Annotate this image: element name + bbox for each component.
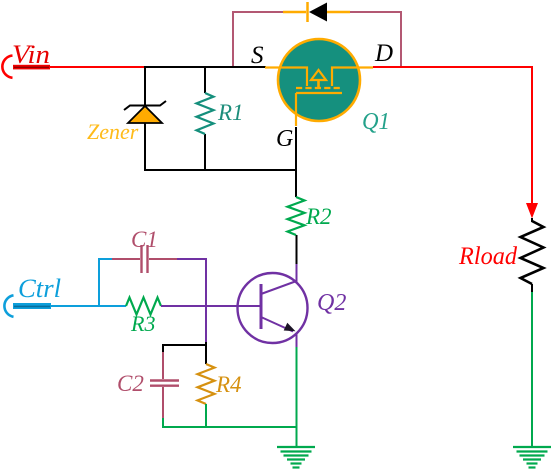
- svg-text:Q2: Q2: [317, 290, 346, 316]
- svg-text:C2: C2: [117, 371, 144, 396]
- svg-text:R4: R4: [215, 372, 242, 397]
- svg-text:D: D: [374, 40, 393, 67]
- svg-text:Vin: Vin: [12, 40, 50, 69]
- svg-text:S: S: [251, 42, 264, 69]
- svg-text:Ctrl: Ctrl: [18, 274, 61, 303]
- svg-text:Q1: Q1: [362, 109, 390, 135]
- svg-text:Zener: Zener: [87, 119, 139, 144]
- svg-text:R1: R1: [217, 100, 244, 125]
- svg-text:R3: R3: [130, 311, 155, 336]
- svg-text:R2: R2: [305, 204, 332, 229]
- svg-text:Rload: Rload: [458, 243, 517, 270]
- svg-text:C1: C1: [131, 227, 158, 252]
- svg-text:G: G: [276, 126, 293, 152]
